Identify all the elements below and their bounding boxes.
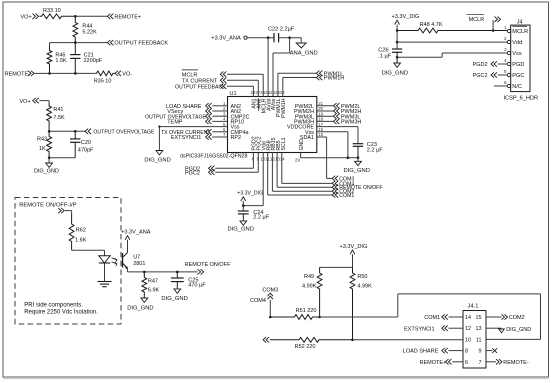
wire MCLR stub up — [492, 20, 494, 31]
connector J4 pins — [504, 25, 528, 90]
isolation boundary dashed box — [15, 198, 121, 325]
svg-text:SCL1: SCL1 — [281, 137, 287, 150]
resistor R41 — [47, 103, 52, 131]
wire OUTPUT FEEDBACK to pin28 — [227, 85, 253, 87]
svg-text:DIG_GND: DIG_GND — [34, 169, 59, 175]
svg-text:DIG_GND: DIG_GND — [144, 158, 170, 164]
svg-text:REMOTE ON/OFF-I/P: REMOTE ON/OFF-I/P — [19, 203, 76, 209]
U1 right pin numbers — [318, 101, 323, 137]
svg-text:Vss: Vss — [512, 51, 522, 57]
svg-text:N/C: N/C — [512, 84, 522, 90]
svg-text:2.2 µF: 2.2 µF — [253, 215, 270, 221]
svg-text:COM3: COM3 — [262, 287, 278, 293]
wire Vdd to +3.3V_DIG — [262, 153, 264, 206]
wire to ANA_GND — [300, 38, 302, 43]
svg-text:4.99K: 4.99K — [357, 284, 372, 290]
svg-text:PRI side components.: PRI side components. — [24, 302, 83, 308]
ground DIG_GND (ICSP) — [394, 63, 401, 67]
node C21 bottom — [74, 72, 77, 75]
svg-text:15: 15 — [318, 132, 323, 137]
wire AVss to gnd — [289, 38, 291, 53]
resistor R62 — [69, 214, 74, 250]
wire pin3 — [212, 115, 227, 117]
svg-text:2801: 2801 — [133, 261, 145, 267]
svg-text:1K: 1K — [39, 146, 46, 152]
node AVss/C22 right — [288, 36, 291, 39]
svg-text:REMOTE+: REMOTE+ — [420, 360, 447, 366]
wire pin4 — [212, 120, 227, 122]
wire pin9 to X — [486, 350, 492, 352]
wire pin2 — [212, 110, 227, 112]
ground DIG_GND (divider) — [46, 163, 53, 167]
ground DIG_GND (U1 core) — [355, 161, 362, 165]
U1 left pin numbers — [223, 101, 226, 137]
svg-text:470pF: 470pF — [78, 148, 94, 154]
svg-text:R41: R41 — [53, 107, 63, 113]
port MCLR (ICSP) — [495, 17, 501, 22]
svg-text:EXTSYNCI1: EXTSYNCI1 — [404, 326, 435, 332]
capacitor C25 — [176, 272, 178, 278]
port COM3 (U1) — [332, 176, 338, 181]
wire R33 to REMOTE+ — [75, 15, 107, 17]
resistor R50 — [350, 267, 355, 340]
svg-text:11: 11 — [476, 337, 482, 343]
svg-text:2.2 µF: 2.2 µF — [367, 148, 384, 154]
svg-text:ICSP_6_HDR: ICSP_6_HDR — [504, 96, 539, 102]
svg-text:dsPIC33FJ16GS502-QFN28: dsPIC33FJ16GS502-QFN28 — [180, 154, 247, 160]
svg-text:REMOTE ON/OFF: REMOTE ON/OFF — [185, 262, 231, 268]
port PWM3H — [334, 119, 340, 124]
port REMOTE+ — [107, 14, 113, 19]
node C20 top — [74, 130, 77, 133]
node R47 top — [143, 271, 146, 274]
resistor R52 — [270, 337, 353, 342]
svg-text:470 µF: 470 µF — [188, 283, 206, 289]
svg-text:PWM3H: PWM3H — [341, 120, 362, 126]
wire pin6 — [212, 131, 227, 133]
LED of optocoupler U7 — [99, 256, 110, 263]
wire ANA rail left — [247, 37, 274, 39]
node Vss/gnd rail — [347, 156, 350, 159]
wire to R62 — [65, 210, 72, 212]
svg-text:6: 6 — [465, 360, 468, 366]
svg-text:COM4: COM4 — [339, 181, 354, 187]
wire R51 loop to pin11 — [320, 316, 398, 318]
node R49 bottom — [318, 316, 321, 319]
no-connect X pin9 — [492, 348, 497, 353]
resistor R43 — [47, 131, 52, 158]
svg-text:10: 10 — [465, 337, 471, 343]
wire 3.3V rail — [396, 25, 398, 50]
wire pin1 — [212, 105, 227, 107]
wire PGC2 — [215, 171, 258, 173]
capacitor C24 — [238, 210, 249, 212]
port OUTPUT FEEDBACK — [107, 40, 113, 45]
U1 right pin names — [287, 104, 314, 141]
wire R62 to LED — [72, 249, 105, 251]
svg-text:R35 10: R35 10 — [94, 79, 112, 85]
wire MCLR to pin26 — [227, 73, 263, 75]
wire PGD2 — [215, 167, 253, 169]
connector J4.1 body — [463, 311, 486, 369]
svg-text:6: 6 — [504, 80, 507, 85]
node R43 bottom — [48, 157, 51, 160]
wire SDA1 to COM3 — [317, 136, 327, 138]
wire VO+ to R41 — [40, 100, 50, 102]
node R50 bottom — [351, 339, 354, 342]
svg-text:PGD: PGD — [512, 62, 524, 68]
wire to DIG_GND — [48, 158, 50, 163]
wire LED cathode — [104, 263, 106, 282]
wire pin13 to gnd — [486, 327, 502, 329]
svg-text:VO-: VO- — [122, 71, 132, 77]
svg-text:6.9K: 6.9K — [148, 287, 160, 293]
svg-text:C20: C20 — [81, 140, 91, 146]
wire PWM1H — [282, 78, 284, 97]
node R44/C21/feedback — [74, 41, 77, 44]
svg-text:2: 2 — [504, 36, 507, 41]
svg-text:C22 2.2µF: C22 2.2µF — [268, 27, 295, 33]
port COM2 (J4.1) — [502, 314, 508, 319]
svg-text:+3.3V_DIG: +3.3V_DIG — [237, 190, 263, 196]
svg-text:12: 12 — [465, 326, 471, 332]
connector J4.1 pin numbers — [465, 315, 482, 366]
port REMOTE ON/OFF (opto) — [198, 269, 204, 274]
wire PWM3L — [317, 115, 334, 117]
U1 top pin numbers — [250, 90, 285, 95]
wire GND pad to ground rail — [300, 153, 302, 158]
svg-text:DIG_GND: DIG_GND — [127, 306, 153, 312]
resistor R51 — [270, 315, 319, 320]
port COM2 (U1) — [332, 189, 338, 194]
op-amp U1 dsPIC33FJ16GS502 body — [228, 97, 317, 153]
svg-text:DIG_GND: DIG_GND — [228, 227, 254, 233]
svg-text:MCLR: MCLR — [182, 72, 198, 78]
connector J4 body — [511, 25, 530, 92]
port COM4 (U1) — [332, 181, 338, 186]
port REMOTE ON/OFF (U1) — [332, 185, 338, 190]
svg-text:R33 10: R33 10 — [43, 8, 61, 14]
port VO- (top) — [115, 71, 121, 76]
svg-text:PWM1H: PWM1H — [324, 76, 345, 82]
svg-text:1.6K: 1.6K — [75, 238, 87, 244]
wire RB5 to REMOTE ON/OFF — [276, 153, 278, 188]
node C25 top — [176, 271, 179, 274]
node R46 bottom — [48, 72, 51, 75]
svg-text:PGD2: PGD2 — [473, 62, 488, 68]
wire TX CURRENT to pin27 — [227, 79, 258, 81]
wire feedback node — [50, 42, 108, 44]
node AVdd/C22 left — [267, 36, 270, 39]
port REMOTE- (J4.1) — [496, 359, 502, 364]
svg-text:+3.3V_DIG: +3.3V_DIG — [392, 14, 420, 20]
wire down to DIG_GND — [357, 158, 359, 162]
U1 left pin names — [231, 104, 250, 141]
svg-text:REMOTE-: REMOTE- — [5, 71, 31, 77]
wire REMOTE- rail — [34, 72, 96, 74]
wire overvoltage node — [49, 130, 85, 132]
svg-text:EXTSYNCI1: EXTSYNCI1 — [171, 135, 202, 141]
resistor R33 — [40, 14, 76, 19]
wire PWM2L — [317, 105, 334, 107]
wire N/C — [494, 85, 507, 87]
resistor R48 — [397, 28, 508, 33]
resistor R44 — [73, 16, 78, 42]
wire collector — [127, 240, 129, 253]
svg-text:J4: J4 — [517, 20, 523, 26]
svg-text:8: 8 — [465, 349, 468, 355]
port R52 stub (left) — [263, 337, 269, 342]
opto arrows — [112, 258, 118, 262]
svg-text:2200pF: 2200pF — [84, 58, 103, 64]
capacitor C21 — [74, 43, 76, 55]
svg-text:PWM1H: PWM1H — [281, 98, 287, 118]
node R33/R44/REMOTE+ — [74, 15, 77, 18]
J4 MCLR label overline — [512, 25, 527, 27]
wire Vss to J4 — [442, 52, 508, 54]
wire VDDCORE to C23 — [317, 126, 358, 128]
node Vdd rail — [396, 41, 399, 44]
svg-text:RP2: RP2 — [231, 135, 242, 141]
port COM1 (U1) — [332, 192, 338, 197]
svg-text:14: 14 — [280, 157, 285, 162]
ground DIG_GND (C24) — [240, 221, 247, 225]
svg-text:ANA_GND: ANA_GND — [290, 50, 318, 56]
resistor R46 — [47, 47, 52, 74]
node MCLR stub — [492, 29, 495, 32]
svg-text:4: 4 — [504, 58, 507, 63]
svg-text:COM4: COM4 — [250, 298, 266, 304]
svg-text:REMOTE+: REMOTE+ — [114, 14, 141, 20]
node COM stub — [269, 316, 272, 319]
wire RB15 to COM2 — [271, 153, 273, 192]
svg-text:OUTPUT FEEDBACK: OUTPUT FEEDBACK — [175, 84, 226, 90]
ground DIG_GND (R47) — [141, 298, 148, 302]
svg-text:COM1: COM1 — [424, 315, 440, 321]
svg-text:1.5K: 1.5K — [55, 58, 67, 64]
svg-text:29: 29 — [295, 158, 300, 163]
svg-text:DIG_GND: DIG_GND — [161, 296, 187, 302]
U1 top pin names — [252, 98, 287, 118]
wire gnd rail to C23 — [348, 157, 358, 159]
resistor R35 — [96, 71, 115, 76]
svg-text:5.22K: 5.22K — [82, 29, 97, 35]
ground DIG_GND (U1 Vss) — [156, 151, 163, 155]
svg-text:+3.3V_ANA: +3.3V_ANA — [211, 36, 241, 42]
svg-text:C26: C26 — [378, 47, 388, 53]
ground ANA_GND — [296, 43, 306, 48]
svg-text:.1 µF: .1 µF — [378, 54, 391, 60]
wire pin7 to REMOTE- — [486, 361, 496, 363]
svg-text:DIG_GND: DIG_GND — [506, 327, 531, 333]
svg-text:R43: R43 — [37, 136, 47, 142]
wire pin6 — [452, 361, 463, 363]
svg-text:MCLR: MCLR — [469, 17, 485, 23]
svg-text:R52 220: R52 220 — [295, 344, 316, 350]
svg-text:R62: R62 — [76, 228, 86, 234]
svg-text:R50: R50 — [357, 274, 367, 280]
wire R43/C20 bottom — [49, 157, 75, 159]
svg-text:OUTPUT FEEDBACK: OUTPUT FEEDBACK — [114, 41, 168, 47]
svg-text:R47: R47 — [148, 278, 158, 284]
U1 top pin name MCLR overline — [258, 99, 260, 112]
svg-text:3: 3 — [504, 47, 507, 52]
svg-text:14: 14 — [465, 315, 471, 321]
capacitor C23 — [353, 143, 363, 145]
wire PWM3H — [317, 120, 334, 122]
svg-text:R51 220: R51 220 — [296, 308, 317, 314]
svg-text:TEMP: TEMP — [167, 120, 183, 126]
ground DIG_GND (J4.1) — [499, 329, 505, 333]
node C23 bottom — [357, 156, 360, 159]
svg-text:7.5K: 7.5K — [53, 115, 65, 121]
wire PWM2H — [317, 110, 334, 112]
svg-text:R48 4.7K: R48 4.7K — [420, 22, 443, 28]
svg-text:VO+: VO+ — [20, 99, 31, 105]
wire RB8 to COM1 — [267, 153, 269, 196]
node C24 top — [242, 204, 245, 207]
wire 3.3V to resistors — [352, 254, 354, 267]
svg-text:OUTPUT OVERVOLTAGE: OUTPUT OVERVOLTAGE — [93, 129, 155, 135]
capacitor C20 — [74, 131, 76, 139]
svg-text:R49: R49 — [304, 274, 314, 280]
svg-text:+3.3V_DIG: +3.3V_DIG — [340, 244, 368, 250]
ground PRI side earth — [98, 281, 112, 283]
svg-text:GND: GND — [299, 139, 305, 151]
svg-text:Vdd: Vdd — [512, 40, 522, 46]
svg-text:PGC2: PGC2 — [185, 170, 200, 176]
wire pin8 — [449, 350, 464, 352]
svg-text:4.99K: 4.99K — [302, 284, 317, 290]
port PWM1L — [316, 71, 322, 76]
port PWM2L — [334, 103, 340, 108]
wire Vss pin5 to ground — [159, 126, 227, 128]
port PWM3L — [334, 114, 340, 119]
U1 bottom pin numbers — [252, 157, 286, 162]
svg-text:VO+: VO+ — [21, 14, 32, 20]
wire COM stub down — [269, 300, 271, 317]
wire pin7 — [212, 136, 227, 138]
wire AVdd supply — [267, 38, 269, 97]
svg-text:Require 2250 Vdc Isolation.: Require 2250 Vdc Isolation. — [24, 310, 98, 316]
svg-text:LOAD SHARE: LOAD SHARE — [403, 349, 439, 355]
svg-text:DIG_GND: DIG_GND — [382, 71, 408, 77]
ground DIG_GND (C25) — [174, 289, 181, 293]
svg-text:J4.1: J4.1 — [468, 304, 479, 310]
wire Vdd to J4 — [397, 41, 508, 43]
svg-text:DIG_GND: DIG_GND — [344, 168, 370, 174]
svg-text:REMOTE-: REMOTE- — [503, 360, 529, 366]
wire PGD — [498, 63, 508, 65]
wire ANA rail right — [279, 37, 302, 39]
wire emitter to output — [127, 269, 129, 272]
svg-text:13: 13 — [476, 326, 482, 332]
node Vss corner — [158, 126, 160, 128]
svg-text:PGC2: PGC2 — [473, 73, 488, 79]
svg-text:5: 5 — [504, 69, 507, 74]
wire PGC — [498, 74, 508, 76]
capacitor C22 — [273, 33, 275, 42]
wire pin14 — [449, 316, 464, 318]
capacitor C26 — [392, 48, 402, 50]
svg-text:U1: U1 — [230, 91, 237, 97]
transistor of optocoupler U7 — [122, 253, 124, 268]
wire pin15 to COM2 — [486, 316, 502, 318]
svg-text:+3.3V_ANA: +3.3V_ANA — [121, 229, 151, 235]
svg-text:1: 1 — [504, 25, 507, 30]
svg-text:COM2: COM2 — [509, 315, 525, 321]
svg-text:7: 7 — [479, 360, 482, 366]
resistor R49 — [317, 267, 322, 317]
wire SCL1 to COM4 — [281, 153, 283, 184]
wire R52 to pin10 — [353, 339, 464, 341]
port OUTPUT OVERVOLTAGE (left) — [85, 129, 91, 134]
svg-text:9: 9 — [479, 349, 482, 355]
wire PWM1L — [277, 73, 279, 96]
U1 bottom pin names — [252, 136, 287, 150]
resistor R47 — [142, 272, 147, 298]
port PWM2H — [334, 108, 340, 113]
node MCLR rail — [396, 29, 399, 32]
wire to R46 — [49, 43, 51, 47]
wire pin12 — [449, 327, 464, 329]
svg-text:U7: U7 — [133, 255, 140, 261]
svg-text:MCLR: MCLR — [512, 29, 528, 35]
node Vss rail — [396, 56, 399, 59]
svg-text:PGC: PGC — [512, 73, 524, 79]
svg-text:15: 15 — [476, 315, 482, 321]
node R41/R43 — [48, 130, 51, 133]
port PWM1H — [316, 75, 322, 80]
wire Vss pin16 down — [317, 131, 348, 133]
